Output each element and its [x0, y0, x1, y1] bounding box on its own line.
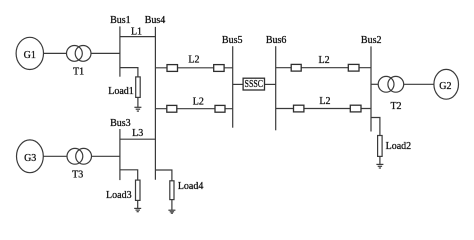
wire T1 to Bus1 — [91, 52, 120, 54]
generator G3 — [17, 140, 44, 173]
wire Bus2 to T2 — [371, 83, 378, 85]
breaker box L2 upper-right 1 — [291, 64, 301, 71]
svg-text:Load4: Load4 — [178, 181, 204, 192]
transformer T1 — [67, 46, 92, 62]
wire T3 to Bus3 — [92, 155, 120, 157]
svg-text:Bus4: Bus4 — [145, 15, 166, 26]
svg-text:L1: L1 — [131, 26, 142, 37]
svg-text:L2: L2 — [319, 55, 330, 66]
line L3 — [120, 138, 155, 140]
svg-text:T2: T2 — [390, 101, 401, 112]
wire Load2 to ground — [379, 156, 381, 164]
wire G3 to T3 — [43, 155, 67, 157]
svg-text:G2: G2 — [439, 81, 451, 92]
wire Load2 branch — [371, 118, 380, 136]
line L2 lower-left — [155, 108, 232, 110]
bus Bus2 — [370, 46, 372, 131]
svg-text:Bus6: Bus6 — [266, 35, 287, 46]
ground Load4 — [168, 210, 175, 213]
ground Load2 — [376, 164, 383, 168]
wire G1 to T1 — [43, 52, 66, 54]
svg-text:Bus5: Bus5 — [222, 35, 243, 46]
breaker box L2 upper-left 1 — [167, 65, 178, 72]
svg-text:Load3: Load3 — [106, 190, 132, 201]
svg-text:T3: T3 — [72, 170, 83, 181]
breaker box L2 upper-right 2 — [348, 64, 359, 71]
wire Load4 to ground — [171, 200, 173, 210]
wire Load1 branch — [120, 68, 138, 77]
bus Bus1 — [119, 26, 121, 76]
svg-text:G3: G3 — [24, 153, 36, 164]
svg-text:L2: L2 — [188, 54, 199, 65]
line L2 upper-right — [276, 67, 371, 69]
bus Bus3 — [119, 129, 121, 180]
ground Load1 — [134, 107, 141, 111]
svg-text:Load1: Load1 — [108, 86, 134, 97]
generator G1 — [16, 37, 43, 69]
wire SSSC to Bus6 — [265, 83, 276, 85]
load Load1 resistor — [136, 77, 141, 98]
breaker box L2 upper-left 2 — [214, 65, 224, 72]
bus Bus6 — [275, 46, 277, 130]
transformer T2 — [378, 76, 403, 92]
wire Load3 to ground — [137, 200, 139, 208]
svg-text:Load2: Load2 — [386, 141, 412, 152]
wire Load3 branch — [120, 170, 138, 180]
load Load3 resistor — [136, 180, 141, 200]
svg-text:G1: G1 — [24, 50, 36, 61]
SSSC box U1 — [243, 78, 264, 90]
bus Bus4 — [154, 27, 156, 180]
wire Load4 branch — [155, 170, 172, 181]
breaker box L2 lower-right 2 — [350, 105, 361, 112]
ground Load3 — [134, 208, 141, 211]
svg-text:L2: L2 — [319, 96, 330, 107]
breaker box L2 lower-left 1 — [167, 105, 177, 112]
line L2 lower-right — [276, 108, 371, 110]
svg-text:Bus3: Bus3 — [110, 118, 131, 129]
generator G2 — [434, 69, 459, 99]
load Load4 resistor — [170, 181, 174, 200]
transformer T3 — [67, 148, 92, 164]
bus Bus5 — [232, 46, 234, 128]
breaker box L2 lower-left 2 — [215, 105, 225, 112]
load Load2 resistor — [378, 136, 383, 157]
breaker box L2 lower-right 1 — [294, 105, 304, 112]
line L1 — [120, 36, 155, 38]
svg-text:SSSC: SSSC — [245, 78, 264, 90]
line L2 upper-left — [155, 67, 232, 69]
svg-text:Bus2: Bus2 — [361, 35, 382, 46]
wire Load1 to ground — [137, 97, 139, 107]
wire T2 to G2 — [404, 83, 434, 85]
svg-text:T1: T1 — [73, 66, 84, 77]
svg-text:Bus1: Bus1 — [110, 15, 131, 26]
wire Bus5 to SSSC — [233, 83, 243, 85]
svg-text:L2: L2 — [193, 96, 204, 107]
svg-text:L3: L3 — [132, 128, 143, 139]
